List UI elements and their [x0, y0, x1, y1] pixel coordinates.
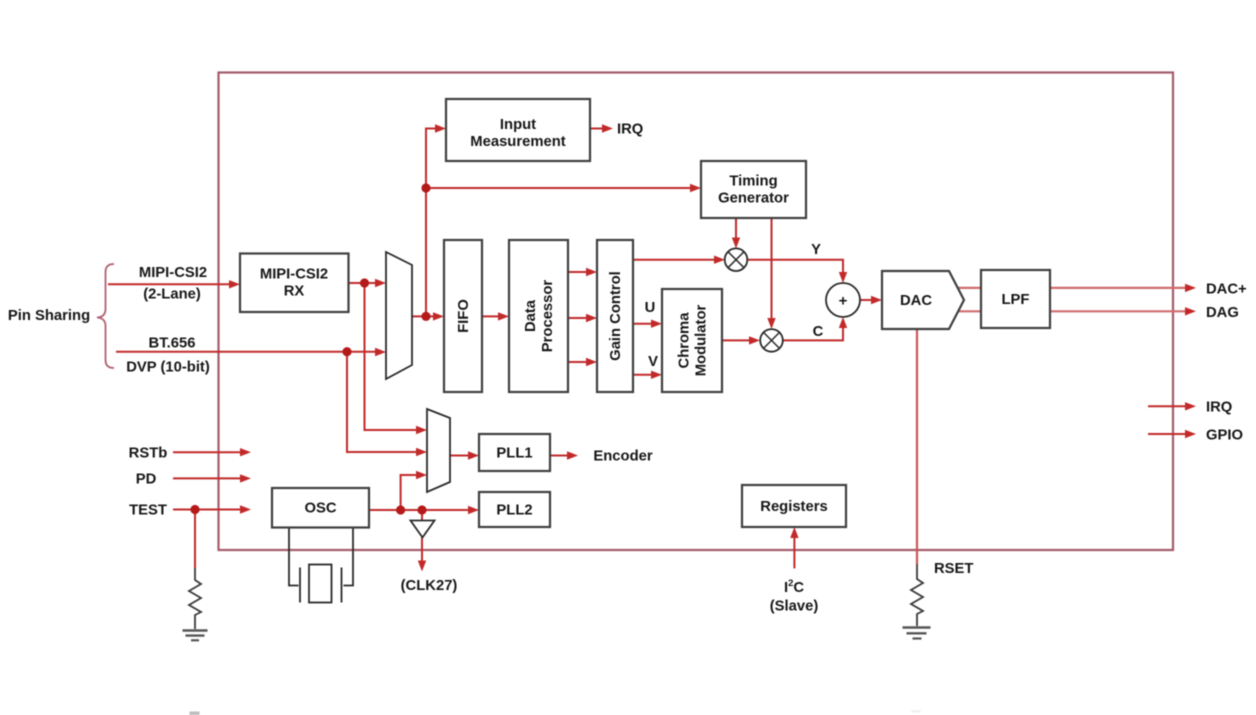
svg-text:Data: Data [523, 299, 539, 332]
block Gain Control [597, 240, 633, 392]
wire BT.656 branch down to clock mux [347, 352, 427, 457]
svg-text:Chroma: Chroma [677, 312, 693, 369]
crystal X1 body [309, 565, 332, 603]
svg-text:TEST: TEST [129, 503, 167, 519]
node I2C (Slave) label [770, 578, 819, 615]
svg-text:V: V [648, 354, 658, 370]
wire Timing Generator to Y multiplier [732, 218, 740, 249]
chip boundary [219, 73, 1174, 551]
adder [826, 283, 860, 317]
block Registers [742, 485, 846, 527]
wire PLL1 to Encoder [550, 451, 578, 459]
block Input Measurement [446, 99, 590, 161]
wire DAC to LPF upper [955, 287, 981, 289]
wire DAC bias to RSET [916, 329, 918, 564]
svg-text:Modulator: Modulator [694, 305, 710, 377]
wire DAC to LPF lower [955, 310, 981, 312]
svg-text:PD: PD [136, 472, 157, 488]
ground (RSET) [903, 628, 931, 639]
svg-text:I2C: I2C [784, 578, 804, 596]
wire CLK27 output [418, 538, 426, 572]
wire Data Processor to Gain Control middle [568, 314, 597, 322]
svg-text:RSET: RSET [934, 561, 973, 577]
svg-text:Gain Control: Gain Control [608, 271, 624, 361]
svg-text:DAC+: DAC+ [1206, 282, 1247, 298]
junction OSC output A [396, 505, 405, 514]
wire MIPI-CSI2 input [108, 280, 240, 288]
wire Gain Control Y output to multiplier [633, 256, 725, 264]
crystal X1 leads [289, 528, 353, 586]
junction mux1 output [421, 312, 430, 321]
wire LPF to DAC+ [1050, 284, 1196, 292]
wire mux2 to PLL1 [450, 451, 479, 459]
wire Chroma Modulator to C multiplier [722, 336, 760, 344]
wire RSET [911, 564, 923, 626]
svg-text:PLL2: PLL2 [496, 503, 532, 519]
wire LPF to DAG [1050, 307, 1196, 315]
wire adder to DAC [860, 296, 882, 304]
svg-text:(Slave): (Slave) [770, 599, 819, 615]
wire PD input [173, 474, 251, 482]
junction RX output [360, 278, 369, 287]
mux M1 (data path) [386, 252, 412, 379]
svg-text:Input: Input [500, 117, 536, 133]
brace Pin Sharing [97, 264, 114, 368]
block OSC [272, 488, 369, 528]
junction timing branch [421, 183, 430, 192]
svg-text:Generator: Generator [718, 191, 789, 207]
wire TEST input [173, 505, 251, 513]
svg-text:RX: RX [284, 283, 305, 299]
wire Gain Control U output [633, 320, 662, 328]
block PLL1 [479, 434, 550, 471]
crystal X1 plates [300, 568, 342, 603]
junction BT.656 branch [342, 347, 351, 356]
wire clock to CLK27 buffer [421, 510, 423, 521]
wire Timing Generator to C multiplier [767, 218, 775, 329]
svg-text:MIPI-CSI2: MIPI-CSI2 [260, 266, 328, 282]
svg-text:U: U [645, 300, 656, 316]
svg-text:Measurement: Measurement [470, 134, 565, 150]
multiplier Y [725, 248, 748, 271]
wire Input Measurement to IRQ [590, 124, 613, 132]
resistor R1 (TEST pulldown) [189, 568, 201, 629]
block Timing Generator [701, 161, 806, 218]
block Data Processor [509, 240, 568, 392]
wire OSC output to PLL2 [369, 506, 479, 514]
svg-text:MIPI-CSI2: MIPI-CSI2 [139, 265, 207, 281]
block FIFO [444, 240, 482, 392]
block DAC [882, 271, 964, 329]
page artifact bottom-left [190, 712, 200, 715]
svg-text:FIFO: FIFO [456, 299, 472, 333]
junction OSC output B [417, 505, 426, 514]
wire Data Processor to Gain Control top [568, 268, 597, 276]
block Chroma Modulator [662, 289, 722, 392]
svg-text:Y: Y [811, 242, 821, 258]
wire I2C to Registers [790, 527, 798, 568]
wire Data Processor to Gain Control bottom [568, 358, 597, 366]
node MIPI-CSI2 (2-Lane) label [139, 265, 207, 303]
svg-text:GPIO: GPIO [1206, 427, 1243, 443]
wire riser to Input Measurement [426, 124, 446, 316]
svg-text:LPF: LPF [1002, 292, 1030, 308]
svg-text:Registers: Registers [760, 499, 827, 515]
page artifact bottom-middle [911, 710, 921, 713]
svg-text:(CLK27): (CLK27) [401, 578, 458, 594]
svg-text:IRQ: IRQ [1206, 400, 1232, 416]
wire Y multiplier to adder [747, 260, 847, 283]
multiplier C [760, 329, 783, 352]
wire TEST pulldown [194, 510, 196, 569]
wire BT.656 input [116, 348, 386, 356]
svg-text:Timing: Timing [729, 174, 777, 190]
wire RSTb input [173, 448, 251, 456]
block MIPI-CSI2 RX [240, 254, 349, 313]
mux M2 (clock path) [427, 409, 450, 492]
svg-text:Encoder: Encoder [593, 449, 652, 465]
svg-text:+: + [839, 293, 848, 310]
svg-text:RSTb: RSTb [129, 445, 168, 461]
svg-text:C: C [813, 324, 824, 340]
svg-text:IRQ: IRQ [617, 122, 643, 138]
svg-text:OSC: OSC [304, 501, 336, 517]
buffer CLK27 [411, 521, 435, 538]
wire FIFO to Data Processor [482, 312, 509, 320]
wire MIPI RX output to mux [349, 279, 387, 287]
wire Gain Control V output [633, 371, 662, 379]
svg-text:PLL1: PLL1 [496, 446, 532, 462]
wire GPIO output right [1148, 430, 1196, 438]
block LPF [981, 270, 1050, 328]
wire to Timing Generator [426, 184, 701, 192]
wire IRQ output right [1148, 402, 1196, 410]
svg-text:(2-Lane): (2-Lane) [143, 287, 201, 303]
wire clock branch to mux2 [401, 471, 427, 510]
wire mux1 output to FIFO [412, 312, 444, 320]
svg-text:DAG: DAG [1206, 305, 1239, 321]
wire C multiplier to adder [783, 317, 847, 340]
svg-text:Processor: Processor [540, 280, 556, 353]
svg-text:DAC: DAC [900, 293, 932, 309]
ground (TEST) [183, 631, 208, 641]
block PLL2 [479, 492, 550, 527]
svg-text:DVP (10-bit): DVP (10-bit) [126, 360, 210, 376]
wire RX output branch down to clock mux [365, 283, 428, 434]
svg-text:BT.656: BT.656 [149, 336, 196, 352]
svg-text:Pin Sharing: Pin Sharing [8, 308, 90, 324]
junction TEST [190, 505, 199, 514]
